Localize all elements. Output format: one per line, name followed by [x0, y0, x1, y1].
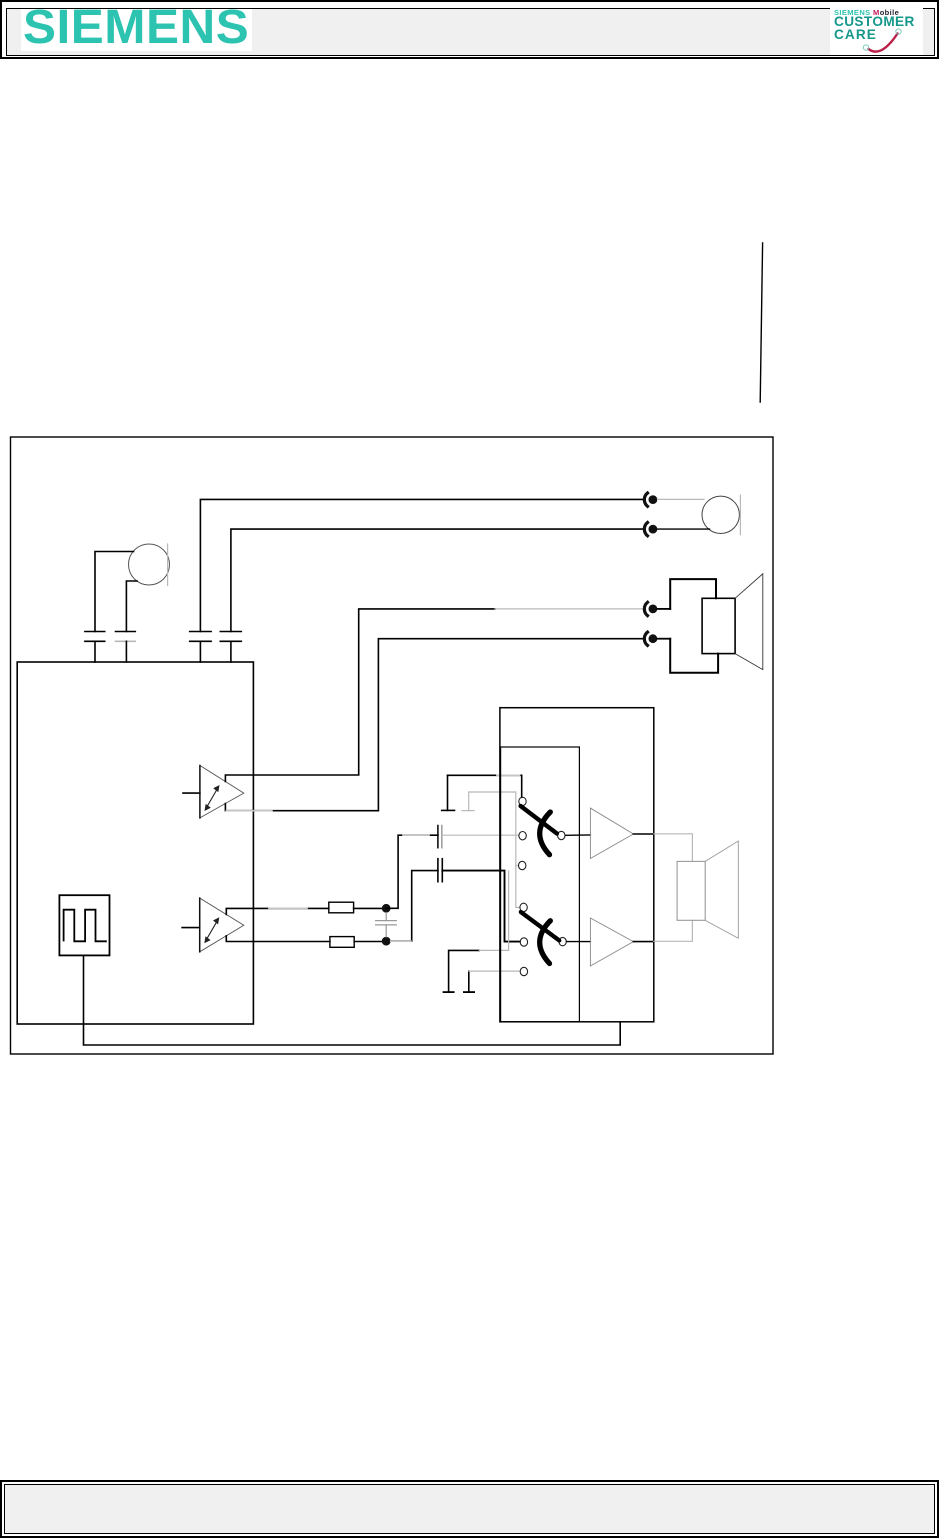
- wire U1B out top: [226, 908, 328, 914]
- ground G2 gray: [462, 792, 520, 907]
- contact c1: [519, 797, 526, 805]
- connector J4: [644, 632, 657, 645]
- wire J1 to earpiece: [658, 498, 705, 500]
- outer schematic frame: [11, 437, 774, 1054]
- wire U1A out top to loudspeaker: [225, 609, 495, 782]
- connector J1: [644, 493, 657, 506]
- wire G1 to contact c1: [448, 775, 522, 797]
- footer bar: [0, 1480, 939, 1538]
- wire gray overlay G1 branch: [497, 774, 520, 776]
- amplifier B triangle: [590, 918, 633, 966]
- contact c4: [520, 903, 527, 911]
- ground G1: [442, 775, 455, 810]
- wire node B to C7: [391, 871, 438, 942]
- wire node B gray segment: [391, 940, 411, 942]
- capacitor C5 across nodes: [376, 913, 397, 937]
- wire J4 stub: [658, 638, 671, 640]
- wire J2 to earpiece: [658, 528, 710, 530]
- resistor R1: [329, 902, 354, 913]
- wire amp B out gray: [654, 920, 693, 941]
- wire amp A out: [633, 833, 653, 835]
- oscillator OSC box: [59, 895, 109, 955]
- wire earpiece minus: [231, 529, 645, 631]
- switch section box: [501, 747, 580, 1022]
- capacitor C2: [116, 632, 136, 663]
- switch S1 arc: [540, 812, 551, 855]
- contact c6: [520, 967, 527, 975]
- red swoosh: [869, 34, 898, 52]
- connector J2: [644, 523, 657, 536]
- op-amp U1A buffer: [200, 766, 244, 818]
- loudspeaker LS2 cone: [735, 574, 763, 670]
- wire gray segment to J3: [495, 608, 645, 610]
- microphone diaphragm line: [167, 544, 169, 586]
- wire R1 to node A: [354, 907, 387, 909]
- SIEMENS logo: [21, 9, 252, 51]
- ground G4: [464, 971, 520, 992]
- wire gray overlay U1B top: [269, 907, 307, 909]
- wire J3 stub: [658, 608, 671, 610]
- earpiece LS1: [702, 495, 740, 534]
- switch S2 blade: [521, 912, 560, 941]
- wire gray overlay node A top: [403, 834, 429, 836]
- wire mic bottom lead: [126, 581, 137, 632]
- wire r2 to amp B: [567, 941, 591, 943]
- node A junction dot: [382, 904, 391, 913]
- op-amp U1A input stub: [183, 792, 200, 794]
- swoosh end star right: [896, 29, 901, 34]
- wire C7 to contact c5: [442, 871, 520, 942]
- oscillator square wave: [64, 910, 106, 942]
- audio amp box U2: [500, 708, 654, 1022]
- wire r1 to amp A: [566, 834, 591, 836]
- connector J3: [644, 602, 657, 615]
- wire amp B out: [633, 941, 653, 943]
- swoosh end star left: [863, 45, 868, 50]
- microphone MIC circle: [129, 544, 170, 585]
- wire mic left lead: [95, 552, 134, 632]
- ground G3: [444, 871, 509, 992]
- wire OSC control line: [84, 955, 621, 1045]
- switch S2 arc: [540, 921, 551, 964]
- wire node A to C6: [386, 835, 438, 908]
- contact c3: [519, 861, 526, 869]
- loudspeaker LS2 housing bottom: [670, 639, 718, 673]
- IC box U1: [17, 662, 253, 1024]
- wire C6 to contact c2: [442, 834, 519, 836]
- Siemens Mobile Customer Care logo: [830, 5, 923, 55]
- capacitor C3: [190, 632, 211, 663]
- wire U1B out bottom: [226, 936, 330, 942]
- switch S1 blade: [521, 806, 557, 834]
- op-amp U1B input stub: [182, 927, 200, 929]
- speaker LS3 body: [677, 861, 705, 920]
- wire amp A out gray: [654, 834, 693, 862]
- loudspeaker LS2 housing top: [670, 579, 716, 609]
- capacitor C6: [438, 826, 442, 848]
- contact c2: [519, 832, 526, 840]
- wire U1A out bottom: [225, 639, 644, 811]
- capacitor C4: [220, 632, 241, 663]
- speaker LS3 cone: [705, 841, 738, 938]
- amplifier A triangle: [590, 808, 633, 858]
- change bar: [760, 243, 762, 402]
- node B junction dot: [382, 937, 391, 946]
- capacitor C7: [438, 859, 442, 882]
- header bar: [0, 0, 939, 59]
- wire gray overlay U1A bottom: [226, 810, 272, 812]
- contact r1: [558, 831, 565, 839]
- capacitor C1: [85, 632, 105, 663]
- wire R2 to node B: [354, 941, 386, 943]
- resistor R2: [330, 937, 354, 948]
- op-amp U1B buffer: [200, 898, 244, 952]
- contact c5: [520, 938, 527, 946]
- wire earpiece plus: [200, 499, 644, 631]
- contact r2: [559, 937, 566, 945]
- loudspeaker LS2 body: [702, 598, 735, 653]
